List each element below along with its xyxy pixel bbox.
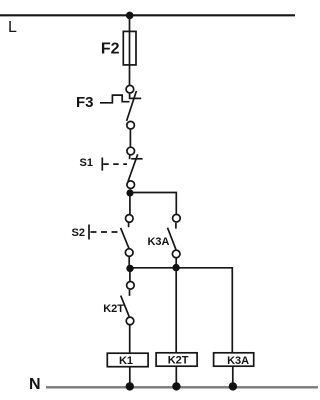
svg-text:L: L (8, 19, 17, 36)
fuse F2 (123, 31, 136, 65)
terminal circle (126, 85, 134, 93)
wire branch to K3A contact (130, 193, 176, 215)
node junction (126, 265, 133, 272)
terminal circle (127, 282, 135, 290)
coil K2T (156, 353, 197, 367)
terminal circle (125, 249, 133, 257)
svg-text:K2T: K2T (103, 303, 124, 315)
terminal circle K3A branch top (173, 214, 181, 222)
contact K2T (NO) (121, 290, 130, 317)
svg-text:N: N (29, 376, 41, 393)
terminal circle (127, 121, 135, 129)
node junction (172, 264, 179, 271)
node on L bus (126, 12, 134, 20)
terminal circle (127, 181, 135, 189)
coil K1 (107, 353, 148, 367)
wire (129, 196, 131, 214)
wire (232, 366, 234, 386)
wire from L bus through fuse to F3 (129, 15, 131, 85)
svg-text:K3A: K3A (227, 355, 249, 367)
pushbutton S2 (NO) (89, 223, 129, 249)
svg-text:F3: F3 (76, 94, 94, 111)
svg-text:F2: F2 (101, 40, 120, 57)
wire (129, 272, 131, 281)
line N bus (46, 386, 318, 388)
node on N bus (229, 382, 237, 390)
node on N bus (172, 382, 180, 390)
svg-text:K3A: K3A (147, 236, 169, 248)
coil K3A (214, 353, 254, 367)
overload contact F3 (100, 91, 141, 121)
wire (129, 325, 131, 353)
wire (175, 366, 177, 386)
contact K3A (NO) (168, 223, 176, 250)
pushbutton S1 (NC) (102, 154, 142, 181)
terminal circle (126, 317, 134, 325)
wire (129, 130, 131, 147)
wire (129, 367, 131, 387)
line L bus (0, 14, 295, 16)
wire horizontal to K3A coil branch (129, 268, 232, 354)
node junction (126, 189, 133, 196)
terminal circle (172, 250, 180, 258)
wire (175, 258, 177, 264)
terminal circle (127, 147, 135, 155)
svg-text:K1: K1 (119, 355, 133, 367)
wire (128, 257, 130, 265)
node on N bus (126, 382, 134, 390)
svg-text:S1: S1 (80, 157, 93, 169)
wire K2T coil branch (175, 268, 177, 354)
svg-text:K2T: K2T (168, 355, 189, 367)
svg-text:S2: S2 (72, 227, 85, 239)
terminal circle (126, 215, 134, 223)
